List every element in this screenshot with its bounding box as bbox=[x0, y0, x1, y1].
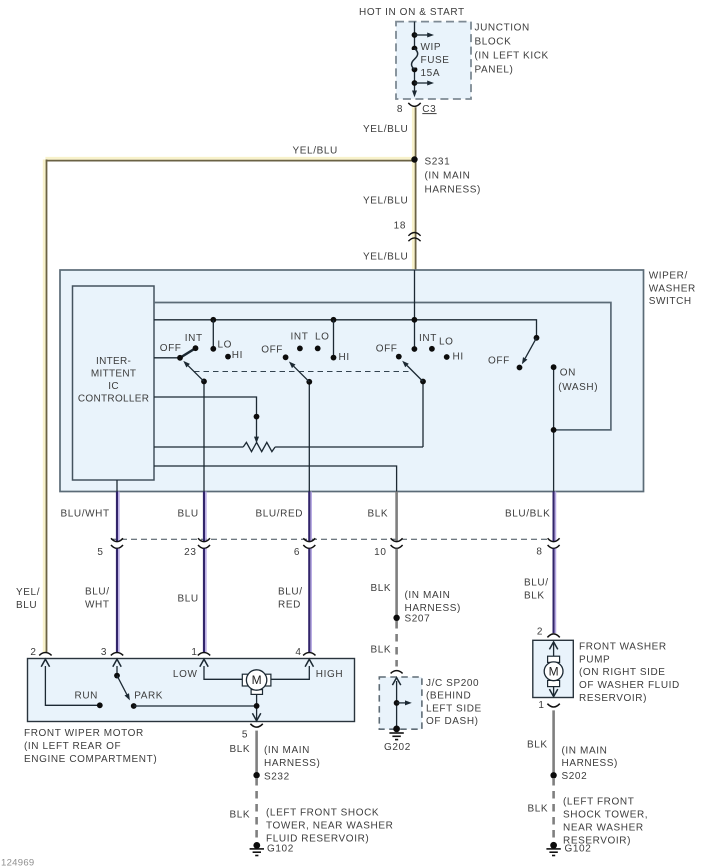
svg-text:IC: IC bbox=[108, 381, 119, 392]
svg-text:MITTENT: MITTENT bbox=[91, 369, 136, 380]
svg-text:HI: HI bbox=[453, 352, 464, 363]
svg-text:BLK: BLK bbox=[527, 739, 548, 750]
svg-text:(IN MAIN: (IN MAIN bbox=[562, 745, 608, 756]
svg-text:(ON RIGHT SIDE: (ON RIGHT SIDE bbox=[579, 667, 666, 678]
svg-text:HI: HI bbox=[232, 350, 243, 361]
svg-text:M: M bbox=[549, 664, 559, 678]
svg-text:OFF: OFF bbox=[488, 356, 510, 367]
svg-text:TOWER, NEAR WASHER: TOWER, NEAR WASHER bbox=[266, 820, 393, 831]
svg-text:INT: INT bbox=[291, 332, 309, 343]
svg-text:RUN: RUN bbox=[75, 691, 98, 702]
svg-text:HARNESS): HARNESS) bbox=[264, 758, 320, 769]
svg-text:2: 2 bbox=[30, 647, 36, 658]
svg-text:NEAR WASHER: NEAR WASHER bbox=[563, 822, 644, 833]
svg-text:BLOCK: BLOCK bbox=[475, 36, 512, 47]
svg-text:(WASH): (WASH) bbox=[558, 382, 598, 393]
svg-text:WIPER/: WIPER/ bbox=[649, 271, 688, 282]
svg-text:SWITCH: SWITCH bbox=[649, 296, 692, 307]
svg-text:J/C SP200: J/C SP200 bbox=[426, 678, 479, 689]
svg-text:FUSE: FUSE bbox=[421, 55, 450, 66]
svg-text:RED: RED bbox=[278, 599, 301, 610]
svg-text:JUNCTION: JUNCTION bbox=[475, 22, 530, 33]
svg-text:BLK: BLK bbox=[230, 809, 251, 820]
svg-text:5: 5 bbox=[242, 729, 248, 740]
svg-text:2: 2 bbox=[537, 626, 543, 637]
svg-text:15A: 15A bbox=[421, 68, 441, 79]
svg-text:3: 3 bbox=[101, 647, 107, 658]
svg-text:SHOCK TOWER,: SHOCK TOWER, bbox=[563, 809, 648, 820]
svg-text:1: 1 bbox=[538, 700, 544, 711]
svg-text:WIP: WIP bbox=[421, 42, 442, 53]
svg-text:OFF: OFF bbox=[160, 343, 182, 354]
svg-text:WASHER: WASHER bbox=[649, 283, 696, 294]
svg-text:BLK: BLK bbox=[230, 744, 251, 755]
svg-text:HARNESS): HARNESS) bbox=[562, 758, 618, 769]
svg-text:BLU: BLU bbox=[178, 593, 199, 604]
svg-text:YEL/: YEL/ bbox=[16, 587, 40, 598]
svg-text:BLK: BLK bbox=[524, 591, 545, 602]
svg-text:(LEFT FRONT: (LEFT FRONT bbox=[563, 796, 634, 807]
svg-text:(IN LEFT REAR OF: (IN LEFT REAR OF bbox=[24, 741, 121, 752]
svg-text:LO: LO bbox=[315, 332, 330, 343]
svg-text:BLK: BLK bbox=[371, 583, 392, 594]
svg-text:BLU/: BLU/ bbox=[278, 586, 303, 597]
svg-text:HIGH: HIGH bbox=[316, 669, 343, 680]
svg-text:BLU/WHT: BLU/WHT bbox=[61, 508, 110, 519]
svg-text:YEL/BLU: YEL/BLU bbox=[363, 251, 408, 262]
svg-text:S231: S231 bbox=[425, 156, 451, 167]
svg-text:(BEHIND: (BEHIND bbox=[426, 691, 471, 702]
svg-text:S232: S232 bbox=[264, 772, 290, 783]
svg-text:8: 8 bbox=[536, 547, 542, 558]
svg-text:8: 8 bbox=[397, 104, 403, 115]
svg-text:BLU/: BLU/ bbox=[524, 578, 549, 589]
svg-text:S202: S202 bbox=[562, 771, 588, 782]
svg-text:23: 23 bbox=[184, 547, 196, 558]
svg-text:OFF: OFF bbox=[261, 344, 283, 355]
svg-text:6: 6 bbox=[294, 547, 300, 558]
svg-text:INTER-: INTER- bbox=[96, 356, 131, 367]
svg-text:PARK: PARK bbox=[134, 691, 163, 702]
svg-text:ENGINE COMPARTMENT): ENGINE COMPARTMENT) bbox=[24, 754, 157, 765]
svg-text:PUMP: PUMP bbox=[579, 654, 610, 665]
svg-text:S207: S207 bbox=[405, 614, 431, 625]
svg-text:OF DASH): OF DASH) bbox=[426, 716, 479, 727]
svg-text:BLU/RED: BLU/RED bbox=[256, 508, 304, 519]
svg-text:HARNESS): HARNESS) bbox=[425, 185, 481, 196]
svg-text:INT: INT bbox=[185, 333, 203, 344]
svg-text:HI: HI bbox=[339, 352, 350, 363]
svg-text:HOT IN ON & START: HOT IN ON & START bbox=[359, 7, 465, 18]
svg-text:BLU: BLU bbox=[178, 508, 199, 519]
svg-text:BLK: BLK bbox=[368, 508, 389, 519]
svg-text:BLU: BLU bbox=[16, 600, 37, 611]
svg-text:4: 4 bbox=[295, 647, 301, 658]
svg-text:(IN MAIN: (IN MAIN bbox=[264, 745, 310, 756]
svg-text:G102: G102 bbox=[267, 843, 294, 854]
svg-text:YEL/BLU: YEL/BLU bbox=[363, 124, 408, 135]
svg-text:BLU/: BLU/ bbox=[85, 586, 110, 597]
svg-text:YEL/BLU: YEL/BLU bbox=[363, 195, 408, 206]
svg-text:LOW: LOW bbox=[173, 669, 198, 680]
svg-text:5: 5 bbox=[97, 547, 103, 558]
svg-text:LEFT SIDE: LEFT SIDE bbox=[426, 703, 482, 714]
svg-text:BLK: BLK bbox=[528, 803, 549, 814]
svg-text:18: 18 bbox=[394, 220, 406, 231]
svg-text:G202: G202 bbox=[384, 742, 411, 753]
svg-text:OFF: OFF bbox=[376, 344, 398, 355]
svg-text:LO: LO bbox=[218, 339, 233, 350]
svg-text:1: 1 bbox=[191, 647, 197, 658]
svg-text:ON: ON bbox=[560, 368, 576, 379]
svg-text:FRONT WIPER MOTOR: FRONT WIPER MOTOR bbox=[24, 728, 144, 739]
svg-text:OF WASHER FLUID: OF WASHER FLUID bbox=[579, 680, 680, 691]
svg-text:PANEL): PANEL) bbox=[475, 65, 514, 76]
svg-text:INT: INT bbox=[419, 333, 437, 344]
svg-text:CONTROLLER: CONTROLLER bbox=[78, 394, 149, 405]
svg-text:HARNESS): HARNESS) bbox=[405, 603, 461, 614]
svg-text:M: M bbox=[252, 673, 262, 687]
svg-text:FRONT WASHER: FRONT WASHER bbox=[579, 641, 667, 652]
svg-text:BLU/BLK: BLU/BLK bbox=[505, 508, 550, 519]
svg-text:WHT: WHT bbox=[85, 599, 110, 610]
svg-text:LO: LO bbox=[439, 337, 454, 348]
svg-text:(LEFT FRONT SHOCK: (LEFT FRONT SHOCK bbox=[266, 807, 379, 818]
svg-text:124969: 124969 bbox=[1, 858, 35, 867]
svg-text:BLK: BLK bbox=[371, 644, 392, 655]
svg-text:(IN MAIN: (IN MAIN bbox=[425, 170, 471, 181]
svg-text:RESERVOIR): RESERVOIR) bbox=[579, 693, 647, 704]
svg-text:G102: G102 bbox=[565, 843, 592, 854]
svg-text:10: 10 bbox=[374, 547, 386, 558]
svg-text:(IN LEFT KICK: (IN LEFT KICK bbox=[475, 51, 549, 62]
svg-text:YEL/BLU: YEL/BLU bbox=[293, 145, 338, 156]
svg-text:(IN MAIN: (IN MAIN bbox=[405, 590, 451, 601]
